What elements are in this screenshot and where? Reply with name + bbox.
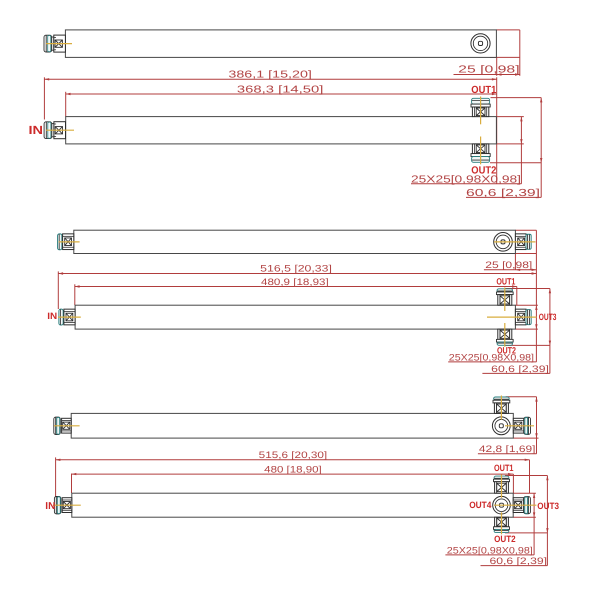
- connector OUT1 group 3: [494, 476, 510, 493]
- centerline OUT3 group 2: [487, 316, 537, 318]
- dimension 515,6 [20,30] overall length group 3: [56, 449, 530, 500]
- centerline top view rear output group 3: [500, 396, 502, 420]
- front view body group 1: [66, 117, 497, 144]
- centerline OUT2 group 1: [480, 137, 482, 165]
- dimension 25 [0,98] top view group 2: [484, 230, 537, 271]
- top view body group 3: [71, 413, 513, 438]
- centerline IN group 3: [53, 504, 81, 506]
- svg-text:OUT2: OUT2: [494, 534, 516, 544]
- connector OUT3 group 3: [513, 497, 530, 514]
- label OUT1 group 3: [494, 463, 514, 473]
- svg-text:60,6 [2,39]: 60,6 [2,39]: [491, 363, 549, 374]
- label IN group 1: [29, 123, 44, 137]
- svg-text:516,5 [20,33]: 516,5 [20,33]: [260, 263, 332, 274]
- svg-text:OUT3: OUT3: [539, 312, 557, 322]
- centerline OUT1 group 3: [501, 475, 503, 498]
- svg-text:OUT2: OUT2: [497, 345, 516, 355]
- centerline OUT3 OUT4 group 3: [494, 504, 536, 506]
- svg-text:42,8 [1,69]: 42,8 [1,69]: [479, 443, 536, 454]
- connector IN group 1: [44, 122, 65, 139]
- dimension 516,5 [20,33] overall length group 2: [58, 230, 536, 362]
- svg-text:IN: IN: [45, 501, 55, 512]
- svg-text:OUT1: OUT1: [471, 85, 496, 96]
- label OUT1 group 2: [496, 276, 515, 286]
- input connector top view group 3: [54, 417, 71, 434]
- centerline top view right output group 2: [494, 241, 536, 243]
- input connector top view group 1: [44, 35, 65, 52]
- svg-text:OUT1: OUT1: [496, 276, 515, 286]
- dimension 25X25 cross-section group 1: [411, 117, 524, 186]
- side output connector top view group 2: [515, 234, 531, 250]
- label OUT2 group 3: [494, 534, 516, 544]
- svg-text:515,6 [20,30]: 515,6 [20,30]: [259, 449, 328, 460]
- svg-text:OUT1: OUT1: [494, 463, 514, 473]
- centerline OUT1 group 2: [504, 288, 506, 312]
- connector OUT2 group 1: [471, 144, 490, 162]
- svg-text:60,6 [2,39]: 60,6 [2,39]: [466, 188, 540, 199]
- centerline top view input group 1: [46, 43, 72, 45]
- dimension 480,9 [18,93] body length group 2: [75, 276, 517, 305]
- dimension 60,6 [2,39] overall height group 1: [466, 98, 542, 199]
- connector OUT2 group 2: [496, 329, 513, 345]
- label OUT3 group 3: [537, 501, 559, 511]
- svg-text:386,1 [15,20]: 386,1 [15,20]: [228, 70, 312, 81]
- top view body group 2: [74, 230, 516, 253]
- dimension 25 [0,98] top view group 1: [454, 30, 520, 76]
- svg-text:480 [18,90]: 480 [18,90]: [264, 464, 322, 475]
- centerline IN group 2: [58, 316, 81, 318]
- front view body group 3: [72, 493, 513, 517]
- connector OUT1 group 2: [496, 289, 513, 305]
- dimension 60,6 [2,39] overall height group 3: [481, 476, 549, 567]
- centerline top view input group 2: [59, 241, 80, 243]
- label OUT1 group 1: [471, 85, 496, 96]
- dimension 25X25 cross-section group 3: [445, 493, 536, 555]
- svg-text:25 [0,98]: 25 [0,98]: [485, 259, 532, 270]
- centerline OUT1 group 1: [480, 97, 482, 125]
- svg-text:368,3 [14,50]: 368,3 [14,50]: [237, 84, 324, 95]
- port OUT4 circle group 3: [493, 496, 511, 514]
- label OUT4 group 3: [469, 500, 492, 510]
- rear output connector top view group 3: [493, 397, 510, 413]
- label OUT3 group 2: [539, 312, 557, 322]
- top view body group 1: [65, 30, 496, 58]
- svg-text:OUT3: OUT3: [537, 501, 559, 511]
- dimension 368,3 [14,50] body length group 1: [66, 84, 497, 116]
- label IN group 2: [47, 311, 57, 321]
- front view body group 2: [75, 305, 515, 329]
- input connector top view group 2: [58, 234, 74, 250]
- dimension 480 [18,90] body length group 3: [72, 464, 514, 494]
- connector IN group 2: [59, 309, 75, 325]
- svg-text:OUT2: OUT2: [471, 165, 496, 176]
- centerline OUT2 group 3: [501, 512, 503, 534]
- svg-text:60,6 [2,39]: 60,6 [2,39]: [490, 555, 548, 566]
- svg-text:25X25[0,98X0,98]: 25X25[0,98X0,98]: [411, 174, 521, 185]
- dimension 386,1 [15,20] overall length group 1: [44, 70, 496, 184]
- dimension 42,8 [1,69] group 3 top view height: [478, 397, 539, 454]
- svg-text:25X25[0,98X0,98]: 25X25[0,98X0,98]: [447, 544, 533, 555]
- label OUT2 group 1: [471, 165, 496, 176]
- dimension 25X25 cross-section group 2: [448, 305, 538, 362]
- connector OUT1 group 1: [471, 98, 490, 116]
- svg-text:OUT4: OUT4: [469, 500, 492, 510]
- centerline OUT2 group 2: [504, 323, 506, 347]
- connector OUT3 group 2: [515, 309, 531, 325]
- output port circle top view group 2: [494, 233, 513, 252]
- centerline top view right output group 3: [505, 425, 534, 427]
- connector OUT2 group 3: [494, 517, 510, 532]
- side output connector top view group 3: [513, 417, 530, 434]
- output port circle top view group 1: [471, 34, 490, 53]
- output port circle top view group 3: [492, 417, 510, 435]
- dimension 60,6 [2,39] overall height group 2: [482, 289, 551, 374]
- svg-text:25X25[0,98X0,98]: 25X25[0,98X0,98]: [449, 351, 534, 362]
- svg-text:IN: IN: [47, 311, 57, 321]
- svg-text:480,9 [18,93]: 480,9 [18,93]: [261, 276, 329, 287]
- connector IN group 3: [54, 497, 71, 514]
- centerline top view input group 3: [54, 425, 80, 427]
- label OUT2 group 2: [497, 345, 516, 355]
- label IN group 3: [45, 501, 55, 512]
- svg-text:IN: IN: [29, 123, 44, 137]
- centerline IN group 1: [46, 129, 74, 131]
- svg-text:25 [0,98]: 25 [0,98]: [458, 64, 520, 75]
